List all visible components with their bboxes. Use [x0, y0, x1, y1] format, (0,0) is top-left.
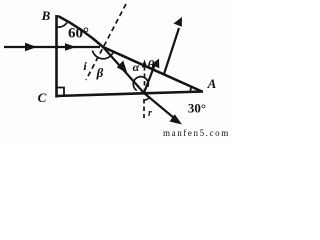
- small arc below D (angle r): [144, 98, 150, 101]
- svg-text:β: β: [96, 65, 104, 80]
- dashed normal at D with up arrow: [142, 60, 148, 92]
- incident ray (horizontal, entering from left): [4, 43, 100, 51]
- svg-text:θ: θ: [148, 57, 155, 72]
- prism hypotenuse BA: [58, 16, 202, 92]
- svg-text:A: A: [207, 76, 217, 91]
- angle arc at P1 (i and beta): [93, 51, 114, 59]
- right-angle mark at C: [57, 88, 65, 96]
- dashed normal below D: [143, 99, 145, 118]
- prism edge BC (left vertical face): [55, 15, 58, 98]
- dashed normal at first incidence point P1: [86, 4, 126, 80]
- svg-text:60°: 60°: [68, 26, 89, 42]
- svg-text:30°: 30°: [188, 101, 206, 116]
- prism edge CA (bottom face): [56, 92, 204, 97]
- svg-text:manfen5.com: manfen5.com: [163, 128, 230, 138]
- exit ray through bottom face: [144, 93, 182, 125]
- outgoing ray above hypotenuse: [164, 17, 182, 74]
- angle arc at A (30 degrees): [190, 87, 191, 92]
- svg-text:r: r: [148, 108, 152, 119]
- svg-text:α: α: [133, 60, 140, 74]
- refracted ray inside prism P1 to D: [103, 47, 144, 93]
- svg-text:C: C: [38, 90, 47, 105]
- angle arc at B (60 degrees): [57, 23, 68, 28]
- angle arc at D: [133, 77, 148, 91]
- reflected ray at D (steep, inside prism): [144, 59, 159, 94]
- svg-text:B: B: [41, 8, 51, 23]
